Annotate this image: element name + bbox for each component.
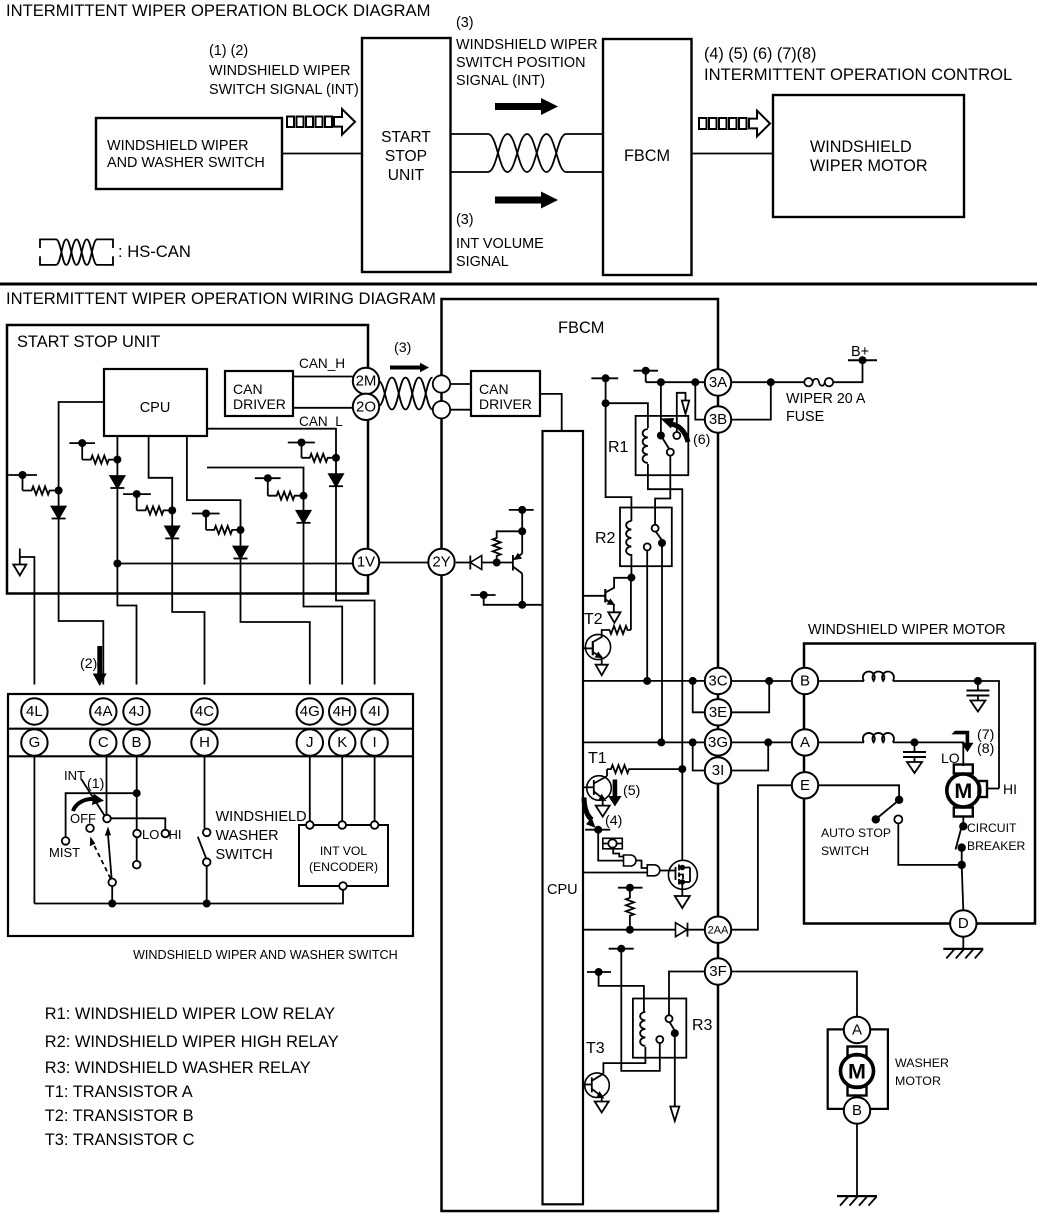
INT VOL encoder: [299, 825, 388, 886]
relay R1: [636, 416, 689, 475]
wire H to washer switch: [204, 756, 206, 829]
terminal B: [792, 668, 818, 694]
pull-up network A (to 4A): [8, 402, 104, 507]
wire breaker to D: [962, 865, 964, 911]
svg-text:INTERMITTENT OPERATION CONTROL: INTERMITTENT OPERATION CONTROL: [704, 65, 1012, 84]
svg-text:T2: T2: [584, 611, 603, 628]
svg-text:WIPER 20 A: WIPER 20 A: [786, 391, 866, 407]
washer motor symbol: [841, 1047, 874, 1096]
svg-text:(2): (2): [80, 656, 97, 672]
wire: FBCM to wiper motor: [692, 153, 774, 155]
wire T1 resistor to vertical: [633, 768, 682, 770]
svg-text:DRIVER: DRIVER: [479, 396, 532, 412]
svg-text:4L: 4L: [26, 703, 43, 720]
base resistor (vertical): [493, 535, 501, 559]
wire R3 moving contact to arrow: [674, 1033, 676, 1106]
power stub (2AA pull-up): [618, 884, 643, 892]
svg-text:(1): (1): [87, 776, 104, 792]
relay R3: [633, 999, 686, 1058]
svg-text:1V: 1V: [357, 554, 375, 571]
wire network E to connector 4H: [304, 523, 343, 685]
svg-text:T3: T3: [586, 1040, 605, 1057]
svg-text:FBCM: FBCM: [558, 319, 604, 337]
svg-text:CIRCUIT: CIRCUIT: [967, 821, 1017, 835]
wires J K I to encoder: [309, 756, 311, 822]
CAN DRIVER (FBCM): [471, 371, 540, 416]
wire R3 coil to T3: [603, 1047, 645, 1074]
svg-text:R3: WINDSHIELD WASHER RELAY: R3: WINDSHIELD WASHER RELAY: [45, 1059, 311, 1077]
junction washer/bus: [203, 900, 211, 908]
wire motor to breaker: [962, 817, 964, 825]
svg-text:FUSE: FUSE: [786, 409, 824, 425]
dashed signal arrow 2: [699, 111, 770, 137]
capacitor (B line): [966, 681, 989, 712]
connector K: [329, 729, 355, 755]
wire 3F to R3 contact: [669, 972, 705, 1016]
block: FBCM: [603, 39, 692, 275]
svg-text:M: M: [848, 1060, 866, 1084]
wire CAN pins to driver: [450, 383, 471, 385]
encoder pin J: [306, 821, 314, 829]
svg-text:SWITCH: SWITCH: [821, 844, 869, 858]
contact OFF: [86, 824, 94, 832]
wire E to auto stop switch: [818, 785, 899, 796]
power stub (encoder circuit): [585, 826, 610, 834]
encoder bottom pin: [339, 882, 347, 890]
wiper switch arm dashed (to OFF): [90, 837, 111, 879]
connector 2Y: [428, 549, 454, 575]
contact LO: [133, 830, 141, 838]
encoder pin K: [338, 821, 346, 829]
source ground MOSFET: [675, 889, 690, 908]
dashed signal arrow 1: [287, 109, 355, 135]
encoder pin I: [371, 821, 379, 829]
wire network D to connector 4G: [241, 559, 310, 685]
twisted pair 2M/2O to FBCM: [379, 378, 433, 410]
svg-text:INTERMITTENT WIPER OPERATION B: INTERMITTENT WIPER OPERATION BLOCK DIAGR…: [6, 1, 430, 20]
svg-text:WASHER: WASHER: [216, 828, 279, 844]
washer switch lower contact: [203, 858, 211, 866]
wire to R1 common contact: [660, 382, 662, 435]
wire gate2 to MOSFET: [660, 870, 669, 872]
wire 3I jumper: [693, 742, 705, 770]
svg-text:3F: 3F: [709, 963, 727, 980]
diode to 2AA (open): [676, 923, 705, 937]
washer motor bracket: [828, 1029, 888, 1109]
wire 3E jumper: [693, 681, 705, 712]
svg-text:2M: 2M: [356, 373, 377, 390]
diode network B: [110, 476, 124, 488]
label (3) int volume signal: [456, 212, 544, 270]
svg-text:CPU: CPU: [547, 882, 578, 898]
wire 3I jumper (outside): [731, 742, 768, 770]
svg-text:M: M: [954, 779, 972, 803]
svg-text:A: A: [852, 1022, 862, 1039]
junction 3B jumper: [767, 378, 775, 386]
junction R1 contact feed: [657, 378, 665, 386]
wire down to R2 coil: [606, 403, 632, 521]
circuit breaker: [956, 822, 968, 865]
wire 3F to washer motor: [731, 972, 857, 1017]
svg-text:R3: R3: [692, 1017, 713, 1034]
CPU U1: [104, 369, 207, 436]
transistor T2 (lower, circled): [583, 634, 611, 664]
svg-text:HI: HI: [169, 827, 182, 842]
power stub 1 (relay feed): [591, 374, 618, 403]
terminal A: [792, 729, 818, 755]
connector 3B: [705, 406, 731, 432]
svg-text:INT VOLUME: INT VOLUME: [456, 236, 544, 252]
svg-text:3G: 3G: [708, 734, 728, 751]
svg-text:WINDSHIELD WIPER: WINDSHIELD WIPER: [456, 37, 598, 53]
wire network C to connector 4C: [172, 538, 204, 684]
svg-text:AND WASHER SWITCH: AND WASHER SWITCH: [107, 155, 265, 171]
box: START STOP UNIT: [7, 325, 368, 594]
wire network B to connector 4J: [117, 488, 136, 685]
svg-text:WINDSHIELD WIPER: WINDSHIELD WIPER: [107, 138, 249, 154]
leader INT to contact: [82, 779, 105, 815]
connector 4L: [21, 698, 47, 724]
inductor (A line): [818, 733, 914, 742]
wire B dot to LO contact: [136, 793, 138, 829]
wire R2 moving contact to 3G wire: [661, 543, 663, 742]
connector 3C: [705, 668, 731, 694]
thick arrow (5): [608, 780, 621, 807]
wiper motor M: [979, 781, 1000, 797]
transistor T1 (circled): [583, 769, 611, 806]
svg-text:INT VOL: INT VOL: [320, 844, 367, 858]
wire 2AA to E: [731, 785, 791, 929]
connector 4J: [123, 698, 149, 724]
CAN DRIVER (start stop unit): [225, 371, 293, 416]
svg-text:4C: 4C: [195, 703, 214, 720]
pull-up network D (to 4G): [187, 436, 245, 547]
wire dot down to resistor: [630, 578, 632, 630]
capacitor (A line): [903, 742, 926, 773]
contact HI: [162, 830, 170, 838]
svg-text:2O: 2O: [356, 398, 376, 415]
inductor (B line): [818, 672, 978, 681]
svg-text:WINDSHIELD WIPER: WINDSHIELD WIPER: [209, 63, 351, 79]
svg-text:B: B: [800, 673, 810, 690]
svg-text:I: I: [373, 734, 377, 751]
junction network B / 1V wire: [113, 560, 121, 568]
svg-text:(3): (3): [456, 212, 474, 228]
pull-up network B (to 4J): [69, 436, 121, 476]
wire vertical to MOSFET: [681, 769, 683, 861]
junction 3G/R2: [657, 738, 665, 746]
transistor T3 (circled): [583, 1073, 609, 1102]
washer switch upper contact: [203, 829, 211, 837]
connector 1V: [353, 549, 379, 575]
terminal E: [792, 772, 818, 798]
svg-text:(4): (4): [605, 813, 622, 829]
connector 4I: [361, 698, 387, 724]
svg-text:B: B: [131, 734, 141, 751]
connector I: [361, 729, 387, 755]
washer motor terminal A: [844, 1017, 870, 1043]
block: windshield wiper and washer switch: [96, 118, 282, 189]
separator line: [0, 283, 1037, 286]
svg-text:R2: WINDSHIELD WIPER HIGH RELA: R2: WINDSHIELD WIPER HIGH RELAY: [45, 1033, 339, 1051]
svg-text:LO: LO: [142, 827, 159, 842]
svg-text:T3: TRANSISTOR C: T3: TRANSISTOR C: [45, 1131, 195, 1149]
wire washer switch to bus: [206, 866, 208, 904]
wire LO contact to lower contact: [136, 838, 138, 861]
svg-text:(ENCODER): (ENCODER): [309, 860, 378, 874]
svg-text:R1: R1: [608, 439, 629, 456]
contact MIST: [62, 837, 70, 845]
wire R1 contact to R2: [655, 456, 670, 525]
contact INT: [103, 815, 111, 823]
signal ground (start stop unit): [13, 549, 26, 576]
emitter ground T2 upper: [608, 612, 620, 623]
wire R1 coil to long vertical: [648, 464, 682, 765]
box: windshield wiper and washer switch: [8, 694, 413, 936]
svg-text:(5): (5): [623, 783, 640, 799]
connector row separators: [8, 728, 413, 730]
connector G: [21, 729, 47, 755]
svg-text:T1: TRANSISTOR A: T1: TRANSISTOR A: [45, 1083, 193, 1101]
wire CAN driver to 2O: [293, 407, 355, 409]
svg-text:4I: 4I: [368, 703, 381, 720]
wire: switch to start stop unit: [282, 153, 362, 155]
svg-text:4J: 4J: [129, 703, 145, 720]
pull-up network C (to 4C): [123, 436, 176, 526]
wiper switch arm common contact: [108, 879, 116, 887]
chassis ground (wiper motor): [943, 949, 983, 959]
wire R2 NC contact to 3C wire: [646, 550, 648, 681]
svg-text:3E: 3E: [709, 704, 727, 721]
junction 3E jumper: [765, 677, 773, 685]
label (1)(2) windshield wiper switch signal: [209, 43, 359, 98]
junction capacitor B: [974, 677, 982, 685]
junction relay coils feed: [602, 399, 610, 407]
svg-text:E: E: [800, 777, 810, 794]
junction 3A/3B: [691, 378, 699, 386]
svg-text:CPU: CPU: [140, 400, 171, 416]
resistor 2AA: [626, 888, 634, 926]
wire CAN driver to CPU: [540, 394, 562, 431]
pull-up network F (to 4I): [207, 429, 340, 475]
svg-text:CAN_L: CAN_L: [299, 414, 343, 429]
transistor T2 (upper): [583, 578, 631, 613]
svg-text:K: K: [337, 734, 347, 751]
wire D to ground: [962, 937, 964, 949]
diode network D: [234, 547, 248, 559]
connector 4G: [297, 698, 323, 724]
auto stop switch: [872, 796, 958, 865]
svg-text:2Y: 2Y: [432, 554, 450, 571]
junction B/MIST wire: [133, 789, 141, 797]
B+ terminal: [848, 344, 877, 364]
connector 4H: [329, 698, 355, 724]
washer switch lever: [198, 837, 206, 859]
wire B down: [136, 756, 138, 794]
junction resistor/2AA wire: [626, 926, 634, 934]
connector 3F: [705, 958, 731, 984]
connector 2M: [353, 368, 379, 394]
svg-text:MOTOR: MOTOR: [895, 1074, 941, 1088]
logic gate 1: [624, 855, 637, 866]
connector 3E: [705, 699, 731, 725]
junction T1/vertical: [678, 765, 686, 773]
svg-text:BREAKER: BREAKER: [967, 839, 1025, 853]
junction 3G/3I: [689, 738, 697, 746]
svg-text:J: J: [306, 734, 314, 751]
washer motor terminal B: [844, 1097, 870, 1123]
open arrow end (washer): [670, 1107, 679, 1122]
svg-text:G: G: [29, 734, 41, 751]
terminal D: [950, 910, 976, 936]
contact aux: [133, 861, 141, 869]
resistor T2: [606, 626, 631, 634]
wire fuse to B+: [833, 360, 862, 382]
svg-text:R2: R2: [595, 530, 616, 547]
diode network E: [297, 511, 311, 523]
curved arrow (1): [73, 794, 104, 812]
connector 3I: [705, 757, 731, 783]
curved arrow (6): [661, 418, 689, 442]
junction resistor/collector: [518, 527, 526, 535]
diode network A: [52, 507, 66, 519]
svg-text:B: B: [852, 1102, 862, 1119]
connector 2AA: [705, 917, 731, 943]
svg-text:WINDSHIELD WIPER AND WASHER SW: WINDSHIELD WIPER AND WASHER SWITCH: [133, 948, 398, 962]
curved thick arrow (4): [584, 798, 596, 828]
svg-text:WASHER: WASHER: [895, 1056, 949, 1070]
svg-text:4G: 4G: [300, 703, 320, 720]
svg-text:SIGNAL (INT): SIGNAL (INT): [456, 73, 545, 89]
box: windshield wiper motor: [804, 644, 1035, 924]
CAN input pin lower: [433, 401, 450, 418]
pull-up network E (to 4H): [207, 468, 308, 511]
svg-text:3I: 3I: [712, 762, 725, 779]
wire stub A to R3 NC contact: [621, 949, 660, 1071]
wiper switch arm (to INT): [105, 827, 112, 879]
junction 3I jumper: [764, 738, 772, 746]
wire G to bottom bus: [33, 756, 35, 904]
power stub 2 (3A feed): [633, 367, 658, 383]
svg-text:HI: HI: [1003, 781, 1017, 797]
svg-text:C: C: [98, 734, 109, 751]
CAN input pin upper: [433, 375, 450, 392]
svg-text:DRIVER: DRIVER: [233, 396, 286, 412]
solid arrow: int volume signal: [495, 192, 558, 209]
resistor T1: [607, 765, 633, 773]
wire 3B jumper: [695, 382, 704, 419]
wire network A to connector 4A: [59, 519, 104, 685]
power stub A (R3): [609, 945, 634, 953]
connector 4A: [90, 698, 116, 724]
diode network F: [329, 474, 343, 486]
svg-text:START STOP UNIT: START STOP UNIT: [17, 333, 160, 351]
svg-text:4A: 4A: [94, 703, 112, 720]
connector H: [191, 729, 217, 755]
logic gate 2: [647, 865, 660, 876]
svg-text:UNIT: UNIT: [388, 167, 425, 184]
wire CPU to 2AA: [583, 929, 676, 931]
wire stub to 3A: [646, 381, 705, 383]
svg-text:B+: B+: [851, 344, 869, 360]
svg-text:SWITCH SIGNAL (INT): SWITCH SIGNAL (INT): [209, 82, 359, 98]
svg-text:3B: 3B: [709, 411, 727, 428]
wire osc to gate1: [613, 848, 623, 857]
wire ground hook to connector 4L: [20, 557, 35, 685]
junction capacitor A: [911, 738, 919, 746]
svg-text:MIST: MIST: [49, 845, 80, 860]
svg-text:CAN_H: CAN_H: [299, 356, 345, 371]
chassis ground (washer motor): [837, 1196, 877, 1206]
wire gate1 to gate2: [636, 861, 647, 869]
svg-text:(3): (3): [456, 15, 474, 31]
svg-text:SWITCH POSITION: SWITCH POSITION: [456, 55, 586, 71]
svg-text:(8): (8): [977, 741, 994, 757]
wire INT contact to HI contact: [111, 818, 165, 829]
wire 3G to A: [731, 741, 791, 743]
solid arrow (3): [390, 363, 429, 373]
fuse WIPER 20 A: [804, 378, 833, 386]
motor symbol: [947, 765, 980, 817]
svg-text:SIGNAL: SIGNAL: [456, 254, 509, 270]
block: windshield wiper motor: [773, 95, 964, 217]
connector B: [123, 729, 149, 755]
svg-text:WINDSHIELD WIPER MOTOR: WINDSHIELD WIPER MOTOR: [808, 622, 1006, 638]
connector 2O: [353, 394, 379, 420]
thick arrow (7)(8): [951, 731, 973, 753]
svg-text:INTERMITTENT WIPER OPERATION W: INTERMITTENT WIPER OPERATION WIRING DIAG…: [6, 289, 436, 308]
svg-text:R1: WINDSHIELD WIPER LOW RELAY: R1: WINDSHIELD WIPER LOW RELAY: [45, 1005, 335, 1023]
(6) flow arrow: [677, 393, 689, 432]
wire CPU to gate2: [583, 872, 647, 874]
wire stub B to R3 coil: [599, 972, 644, 1012]
connector C: [90, 729, 116, 755]
solid arrow: switch position signal: [495, 98, 558, 115]
svg-text:T2: TRANSISTOR B: T2: TRANSISTOR B: [45, 1107, 194, 1125]
power stub B (R3 coil): [587, 968, 611, 976]
emitter ground T3: [595, 1102, 609, 1113]
wire B to ground: [856, 1124, 858, 1196]
legend: HS-CAN symbol: [40, 239, 113, 265]
svg-text:OFF: OFF: [70, 811, 96, 826]
svg-text:FBCM: FBCM: [624, 147, 670, 165]
svg-text:WIPER MOTOR: WIPER MOTOR: [810, 157, 928, 175]
2Y input circuit: diode: [456, 556, 493, 570]
junction emitter/CPU wire: [518, 601, 526, 609]
connector 3A: [705, 369, 731, 395]
bottom bus wire: [34, 890, 343, 904]
connector J: [297, 729, 323, 755]
emitter ground T2 lower: [596, 665, 608, 676]
svg-text:H: H: [199, 734, 210, 751]
wire network F to connector 4I: [336, 486, 375, 684]
wire 3E jumper (outside): [731, 681, 769, 712]
svg-text:STOP: STOP: [385, 148, 427, 165]
arm common to bus: [111, 886, 113, 903]
label windshield washer switch: [216, 809, 307, 863]
svg-text:(1) (2): (1) (2): [209, 43, 248, 59]
wire 1V to 2Y: [379, 562, 428, 564]
svg-text:3C: 3C: [708, 673, 727, 690]
label (4)-(8) intermittent operation control: [704, 45, 1012, 84]
svg-text:CAN: CAN: [233, 381, 263, 397]
svg-text:T1: T1: [588, 750, 607, 767]
svg-text:SWITCH: SWITCH: [216, 847, 273, 863]
junction T2 collector: [627, 574, 635, 582]
connector 3G: [705, 729, 731, 755]
label (3) switch position signal: [456, 15, 598, 89]
transistor Q (2Y input, PNP): [497, 531, 523, 605]
